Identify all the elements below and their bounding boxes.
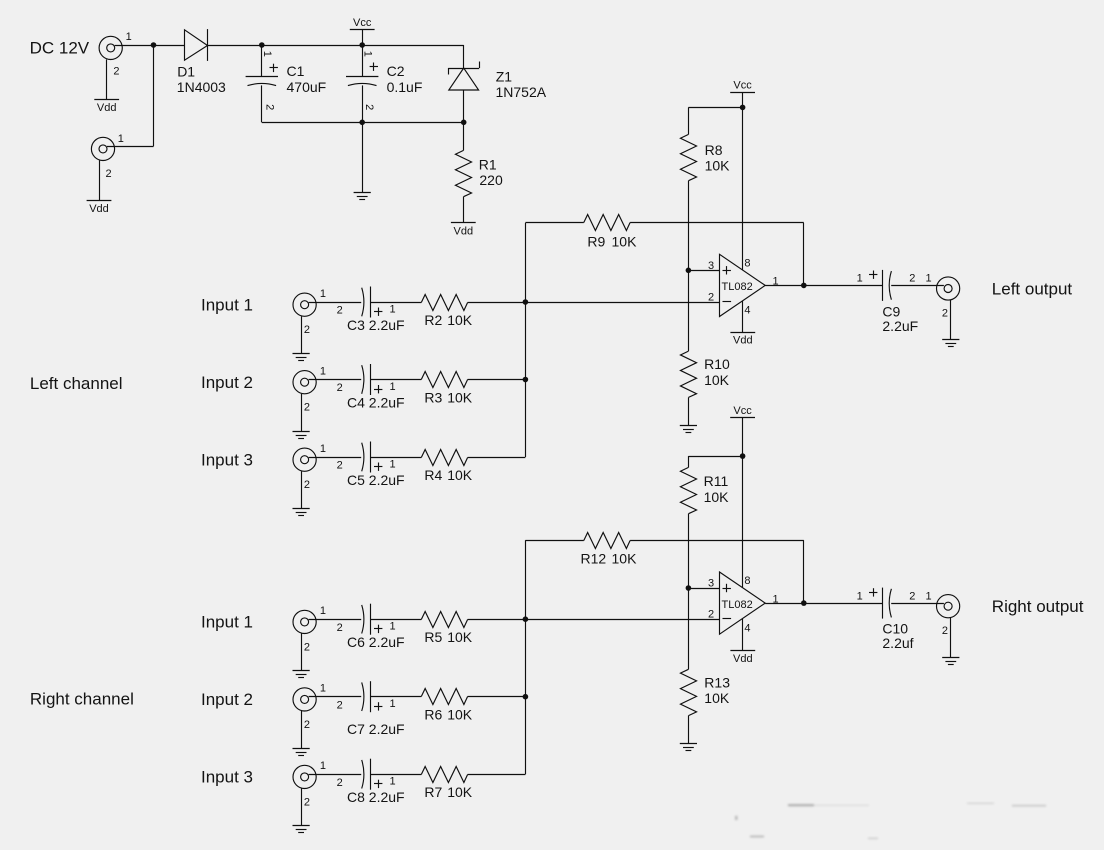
svg-text:2: 2	[337, 777, 343, 789]
resistor R8	[680, 134, 696, 180]
svg-text:10K: 10K	[705, 158, 731, 174]
connector input C6	[293, 610, 316, 633]
svg-text:Vcc: Vcc	[733, 405, 752, 417]
wire to earth ground	[362, 122, 364, 192]
junction output/feedback	[801, 283, 807, 289]
op-amp U TL082	[720, 254, 766, 316]
wire Vcc to pin8/R divider	[742, 92, 744, 107]
svg-text:2: 2	[337, 699, 343, 711]
svg-text:1: 1	[857, 590, 863, 602]
earth ground under connector	[293, 825, 310, 827]
svg-text:R7: R7	[424, 784, 442, 800]
wire cap to resistor	[370, 302, 421, 304]
wire connector pin2 down	[301, 471, 303, 508]
wire feedback left segment	[525, 222, 583, 224]
junction bus row1	[523, 616, 529, 622]
wire C1 top to C2 top	[262, 45, 362, 47]
svg-text:TL082: TL082	[722, 599, 753, 611]
connector input C5	[293, 448, 316, 471]
earth ground under output connector	[942, 339, 959, 341]
earth ground under connector	[293, 431, 310, 433]
connector J1 (DC in)	[99, 36, 122, 59]
svg-text:3: 3	[708, 578, 714, 590]
wire +input node down to bottom divider resistor	[688, 588, 690, 669]
diode D1	[185, 30, 208, 60]
wire connector pin2 down	[301, 634, 303, 671]
svg-text:2: 2	[942, 307, 948, 319]
svg-text:1: 1	[390, 458, 396, 470]
svg-text:Left output: Left output	[992, 279, 1073, 298]
capacitor C10	[882, 588, 884, 619]
plus mark cap	[374, 706, 382, 708]
summing bus vertical wire	[525, 223, 527, 457]
svg-text:10K: 10K	[447, 389, 473, 405]
junction bus row2	[523, 377, 529, 383]
wire resistor to bus	[468, 696, 526, 698]
junction bus row2	[523, 694, 529, 700]
svg-text:R12: R12	[581, 551, 607, 567]
wire pin 8 (V+)	[742, 456, 744, 587]
wire connector pin2 down	[301, 711, 303, 748]
svg-text:R3: R3	[424, 389, 442, 405]
wire down to Z1 cathode	[463, 45, 465, 68]
svg-text:Vdd: Vdd	[733, 335, 753, 347]
resistor R11	[680, 467, 696, 513]
wire feedback left segment	[525, 540, 583, 542]
svg-text:10K: 10K	[447, 312, 473, 328]
svg-text:10K: 10K	[447, 629, 473, 645]
wire cap to output connector	[891, 603, 944, 605]
zener diode Z1	[448, 68, 479, 70]
svg-text:1: 1	[126, 31, 132, 43]
svg-text:Input 1: Input 1	[201, 295, 253, 314]
wire resistor to bus	[468, 619, 526, 621]
svg-text:2: 2	[337, 305, 343, 317]
svg-text:2: 2	[337, 622, 343, 634]
wire connector to cap	[309, 696, 362, 698]
svg-text:TL082: TL082	[722, 281, 753, 293]
wire cap to resistor	[370, 379, 421, 381]
resistor R7	[421, 766, 467, 782]
svg-text:1: 1	[772, 276, 778, 288]
svg-text:1: 1	[320, 288, 326, 300]
svg-text:C9: C9	[882, 303, 900, 319]
wire connector to cap	[309, 619, 362, 621]
capacitor C5	[362, 443, 364, 472]
svg-text:1: 1	[390, 303, 396, 315]
svg-text:470uF: 470uF	[287, 79, 327, 95]
wire resistor to bus	[468, 774, 526, 776]
svg-text:1: 1	[772, 593, 778, 605]
wire connector to cap	[309, 379, 362, 381]
wire J1 pin2 to ground	[106, 60, 108, 100]
resistor R2	[421, 294, 467, 310]
svg-text:2.2uF: 2.2uF	[882, 318, 918, 334]
wire feedback down to output	[803, 223, 805, 286]
faint smudge artifacts	[735, 803, 1046, 840]
svg-text:C8 2.2uF: C8 2.2uF	[347, 789, 405, 805]
wire J1 pin1 to D1 anode	[115, 45, 185, 47]
wire bottom rail C1-C2-Z1	[262, 122, 464, 124]
connector input C8	[293, 765, 316, 788]
ground Vdd under op-amp	[730, 650, 755, 652]
capacitor C9	[882, 270, 884, 301]
svg-text:D1: D1	[177, 63, 195, 79]
ground Vdd under op-amp	[730, 332, 755, 334]
junction output/feedback	[801, 600, 807, 606]
capacitor C3	[362, 288, 364, 317]
svg-text:R11: R11	[704, 473, 729, 489]
Vcc symbol R11 stage	[730, 417, 755, 419]
svg-text:Left channel: Left channel	[30, 374, 123, 393]
svg-text:2: 2	[304, 796, 310, 808]
svg-text:C3 2.2uF: C3 2.2uF	[347, 317, 405, 333]
wire connector to cap	[309, 774, 362, 776]
connector input C7	[293, 688, 316, 711]
svg-text:220: 220	[479, 172, 503, 188]
wire cap to resistor	[370, 619, 421, 621]
wire J2 pin2 to ground	[99, 161, 101, 201]
plus mark op-amp	[723, 588, 731, 590]
svg-text:Input 1: Input 1	[201, 613, 253, 632]
resistor R13	[680, 669, 696, 715]
svg-text:2: 2	[708, 609, 714, 621]
svg-text:Vcc: Vcc	[353, 17, 372, 29]
minus mark op-amp	[723, 618, 732, 620]
minus mark op-amp	[723, 301, 732, 303]
svg-text:1: 1	[925, 590, 931, 602]
earth ground under R10	[680, 425, 697, 427]
svg-text:Vdd: Vdd	[97, 102, 117, 114]
svg-text:10K: 10K	[612, 233, 638, 249]
svg-text:Vcc: Vcc	[733, 80, 752, 92]
capacitor C4	[362, 365, 364, 394]
plus mark op-amp	[723, 270, 731, 272]
plus mark cap	[374, 311, 382, 313]
svg-text:2: 2	[363, 104, 375, 110]
svg-text:C7 2.2uF: C7 2.2uF	[347, 721, 405, 737]
earth ground under connector	[293, 748, 310, 750]
wire connector pin2 down	[950, 618, 952, 657]
svg-text:2: 2	[708, 291, 714, 303]
capacitor C6	[362, 605, 364, 634]
svg-text:R9: R9	[587, 233, 605, 249]
resistor R4	[421, 449, 467, 465]
wire C2 top to Z1	[362, 45, 464, 47]
svg-text:1: 1	[390, 698, 396, 710]
wire connector to cap	[309, 457, 362, 459]
wire pin 4 (V-)	[742, 619, 744, 651]
wire Vcc node to top divider resistor	[688, 456, 742, 458]
plus mark cap	[374, 466, 382, 468]
svg-text:1N752A: 1N752A	[496, 84, 547, 100]
wire op-amp output	[765, 603, 882, 605]
resistor R6	[421, 688, 467, 704]
resistor R1	[463, 122, 465, 150]
wire pin 8 (V+)	[742, 107, 744, 270]
svg-text:Vdd: Vdd	[89, 203, 109, 215]
wire -input to op-amp pin2	[525, 302, 719, 304]
wire bottom resistor to ground	[688, 397, 690, 425]
wire Vcc to pin8/R divider	[742, 418, 744, 457]
svg-text:R6: R6	[424, 707, 442, 723]
svg-text:10K: 10K	[704, 489, 730, 505]
svg-text:2: 2	[304, 324, 310, 336]
wire cap to resistor	[370, 774, 421, 776]
plus mark C2	[370, 66, 378, 68]
svg-text:1N4003: 1N4003	[177, 79, 226, 95]
capacitor C7	[362, 682, 364, 711]
svg-text:Vdd: Vdd	[454, 225, 474, 237]
svg-text:2: 2	[113, 66, 119, 78]
junction at J1/J2 node	[151, 42, 157, 48]
svg-text:2: 2	[304, 719, 310, 731]
wire connector pin2 down	[301, 316, 303, 353]
connector Left output	[937, 277, 960, 300]
connector J2 (DC in 2)	[91, 137, 114, 160]
svg-text:1: 1	[261, 51, 273, 57]
wire resistor to bus	[468, 302, 526, 304]
junction Vcc node	[740, 105, 746, 111]
ground Vdd under J1	[94, 99, 119, 101]
svg-text:R8: R8	[705, 142, 723, 158]
junction bus row1	[523, 299, 529, 305]
svg-text:3: 3	[708, 260, 714, 272]
connector Right output	[937, 595, 960, 618]
svg-text:4: 4	[744, 622, 750, 634]
earth ground under R13	[680, 743, 697, 745]
wire cap to resistor	[370, 696, 421, 698]
svg-text:1: 1	[320, 683, 326, 695]
svg-text:2: 2	[106, 168, 112, 180]
svg-text:Input 3: Input 3	[201, 768, 253, 787]
earth ground under connector	[293, 353, 310, 355]
wire Vcc node to top divider resistor	[688, 107, 742, 109]
svg-text:C5 2.2uF: C5 2.2uF	[347, 472, 405, 488]
connector input C4	[293, 371, 316, 394]
svg-text:Right output: Right output	[992, 597, 1084, 616]
svg-text:2: 2	[304, 402, 310, 414]
svg-text:C10: C10	[882, 620, 908, 636]
svg-text:Input 2: Input 2	[201, 690, 253, 709]
wire J2 up to supply node	[153, 45, 155, 146]
wire divider resistor to +input node	[688, 514, 690, 588]
junction at C1 top	[259, 42, 265, 48]
junction +input node	[686, 268, 692, 274]
svg-text:1: 1	[390, 381, 396, 393]
wire +input node down to bottom divider resistor	[688, 270, 690, 351]
capacitor C2	[362, 45, 364, 76]
wire +input to op-amp pin3	[688, 270, 719, 272]
svg-text:R10: R10	[704, 356, 730, 372]
wire divider resistor to +input node	[688, 181, 690, 271]
wire connector to cap	[309, 302, 362, 304]
wire feedback right segment	[630, 540, 804, 542]
svg-text:10K: 10K	[612, 551, 638, 567]
svg-text:R2: R2	[424, 312, 442, 328]
svg-text:R1: R1	[479, 156, 497, 172]
svg-text:C6 2.2uF: C6 2.2uF	[347, 634, 405, 650]
resistor R9 (feedback)	[584, 214, 630, 230]
resistor R12 (feedback)	[584, 532, 630, 548]
junction bottom rail at C2	[359, 120, 365, 126]
ground Vdd under J2	[87, 200, 112, 202]
svg-text:10K: 10K	[447, 784, 473, 800]
wire resistor to bus	[468, 379, 526, 381]
earth ground under connector	[293, 508, 310, 510]
wire cap to resistor	[370, 457, 421, 459]
wire op-amp output	[765, 285, 882, 287]
plus mark cap	[374, 783, 382, 785]
svg-text:2: 2	[304, 479, 310, 491]
connector input C3	[293, 293, 316, 316]
svg-text:2: 2	[304, 641, 310, 653]
svg-text:2.2uf: 2.2uf	[882, 635, 913, 651]
plus mark cap	[869, 274, 877, 276]
Vcc symbol R8 stage	[730, 92, 755, 94]
earth ground under output connector	[942, 657, 959, 659]
capacitor C1	[261, 45, 263, 76]
resistor R5	[421, 611, 467, 627]
svg-text:2: 2	[942, 625, 948, 637]
junction bottom rail at Z1	[461, 120, 467, 126]
svg-text:1: 1	[925, 273, 931, 285]
svg-text:10K: 10K	[447, 467, 473, 483]
svg-text:2: 2	[337, 382, 343, 394]
svg-text:C2: C2	[387, 63, 405, 79]
svg-text:1: 1	[390, 776, 396, 788]
svg-text:1: 1	[857, 273, 863, 285]
junction at C2 top	[359, 42, 365, 48]
plus mark cap	[374, 628, 382, 630]
wire D1 cathode to C1	[207, 45, 261, 47]
resistor R3	[421, 371, 467, 387]
resistor R10	[680, 351, 696, 397]
svg-text:DC 12V: DC 12V	[30, 38, 90, 57]
junction +input node	[686, 585, 692, 591]
svg-text:R4: R4	[424, 467, 442, 483]
wire feedback right segment	[630, 222, 804, 224]
svg-text:R5: R5	[424, 629, 442, 645]
svg-text:C1: C1	[287, 63, 305, 79]
svg-text:1: 1	[390, 621, 396, 633]
svg-text:4: 4	[744, 305, 750, 317]
svg-text:0.1uF: 0.1uF	[387, 79, 423, 95]
svg-text:1: 1	[320, 366, 326, 378]
earth ground under C2	[354, 192, 371, 194]
earth ground under connector	[293, 670, 310, 672]
svg-text:1: 1	[361, 51, 373, 57]
ground Vdd under R1	[451, 222, 476, 224]
wire feedback down to output	[803, 540, 805, 603]
svg-text:Right channel: Right channel	[30, 689, 134, 708]
svg-text:1: 1	[118, 133, 124, 145]
wire -input to op-amp pin2	[525, 619, 719, 621]
svg-text:8: 8	[744, 257, 750, 269]
svg-text:10K: 10K	[447, 707, 473, 723]
svg-text:Z1: Z1	[496, 69, 513, 85]
svg-text:8: 8	[744, 575, 750, 587]
svg-text:2: 2	[263, 104, 275, 110]
wire resistor to bus	[468, 457, 526, 459]
svg-text:1: 1	[320, 605, 326, 617]
summing bus vertical wire	[525, 540, 527, 774]
junction Vcc node	[740, 453, 746, 459]
svg-text:10K: 10K	[704, 372, 730, 388]
plus mark C1	[270, 67, 278, 69]
op-amp U TL082	[720, 572, 766, 634]
wire connector pin2 down	[301, 394, 303, 431]
svg-text:10K: 10K	[704, 690, 730, 706]
svg-text:1: 1	[320, 760, 326, 772]
Vcc symbol above C2	[362, 29, 364, 45]
svg-text:Vdd: Vdd	[733, 653, 753, 665]
svg-text:Input 3: Input 3	[201, 450, 253, 469]
capacitor C8	[362, 760, 364, 789]
svg-text:2: 2	[909, 590, 915, 602]
svg-text:2: 2	[337, 460, 343, 472]
wire bottom resistor to ground	[688, 716, 690, 744]
svg-text:C4 2.2uF: C4 2.2uF	[347, 395, 405, 411]
svg-text:1: 1	[320, 443, 326, 455]
wire connector pin2 down	[301, 789, 303, 826]
svg-text:Input 2: Input 2	[201, 373, 253, 392]
svg-text:2: 2	[909, 273, 915, 285]
wire cap to output connector	[891, 285, 944, 287]
plus mark cap	[869, 592, 877, 594]
wire connector pin2 down	[950, 300, 952, 339]
svg-text:R13: R13	[704, 674, 730, 690]
wire +input to op-amp pin3	[688, 588, 719, 590]
plus mark cap	[374, 389, 382, 391]
wire J2 pin1	[107, 146, 154, 148]
wire pin 4 (V-)	[742, 301, 744, 332]
